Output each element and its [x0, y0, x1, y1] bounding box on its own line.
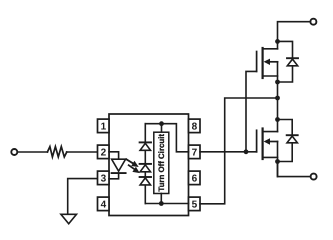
IC body U1 [109, 114, 189, 216]
wire pin3 to ground [68, 179, 98, 215]
photodiode PD2 [140, 163, 151, 165]
svg-text:4: 4 [101, 200, 107, 211]
LED D1 [112, 159, 126, 171]
wire box to bottom [160, 194, 162, 204]
resistor R [47, 147, 66, 157]
wire [18, 151, 48, 153]
node drain Q1 (dot) [275, 39, 280, 44]
transistor Q2 (bottom MOSFET) [256, 130, 258, 152]
node source Q2 (dot) [275, 159, 280, 164]
light arrow 1 [126, 159, 134, 164]
output terminal (top) [310, 19, 316, 25]
pin 3 [98, 171, 110, 185]
pin 8 [189, 119, 201, 133]
body diode D3 [278, 120, 293, 136]
pin 4 [98, 197, 110, 211]
node drain Q2 (dot) [275, 117, 280, 122]
node mid (dot) [275, 96, 280, 101]
wire [67, 151, 98, 153]
node bottom (dot) [159, 201, 164, 206]
photodiode PD1 [140, 141, 151, 143]
wire pin5 to source node [200, 98, 278, 204]
wire stack bottom to pin5 [145, 203, 188, 205]
svg-text:3: 3 [101, 174, 107, 185]
input terminal (left) [11, 149, 17, 155]
wire LED to pin3 [109, 173, 119, 179]
svg-text:Turn Off Circuit: Turn Off Circuit [157, 134, 166, 192]
svg-text:5: 5 [192, 200, 198, 211]
wire gate rail up to Q1 [246, 71, 257, 151]
pin 2 [98, 145, 110, 159]
node source Q1 (dot) [275, 80, 280, 85]
wire to bottom terminal [278, 162, 311, 177]
turn off circuit box [154, 132, 169, 193]
pin 5 [189, 197, 201, 211]
pin 1 [98, 119, 110, 133]
photodiode PD3 [140, 176, 151, 178]
photodiode stack wire [144, 124, 146, 204]
light arrow 2 [129, 165, 136, 170]
node top (dot) [159, 121, 164, 126]
svg-text:6: 6 [192, 174, 198, 185]
node gate (dot) [244, 149, 249, 154]
ground (open arrow down) [61, 214, 77, 224]
pin 7 [189, 145, 201, 159]
wire pin2 inner [109, 152, 119, 159]
svg-text:8: 8 [192, 122, 198, 133]
transistor Q1 (top MOSFET) [256, 52, 258, 72]
svg-text:1: 1 [101, 122, 107, 133]
output terminal (bottom) [311, 174, 317, 180]
wire stack top to pin7 [145, 124, 188, 152]
pin 6 [189, 171, 201, 185]
wire dot to turn-off box [161, 124, 163, 133]
svg-text:7: 7 [192, 148, 198, 159]
svg-text:2: 2 [101, 148, 107, 159]
body diode D2 [278, 41, 293, 58]
wire pin7 to gates [200, 151, 257, 153]
wire to top terminal [278, 22, 311, 42]
